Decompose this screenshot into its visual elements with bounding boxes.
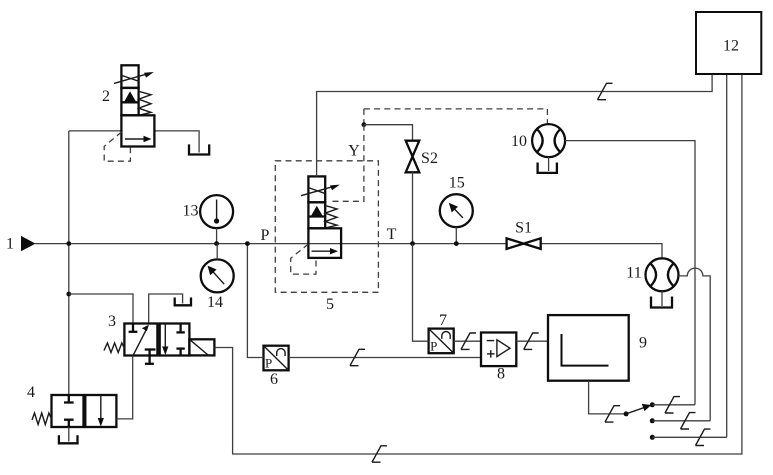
svg-text:5: 5 <box>326 296 334 313</box>
valve 3 right position box <box>160 324 190 356</box>
tank under valve 2 outlet <box>189 144 209 154</box>
wire meter 10 signal to switch row 1 <box>565 141 695 405</box>
signal slash on Y wire <box>598 83 613 99</box>
wire solenoid to controller 12 <box>214 74 742 454</box>
valve 5 pilot dashed line <box>291 244 316 274</box>
svg-text:15: 15 <box>449 175 465 192</box>
svg-text:6: 6 <box>270 371 278 388</box>
valve 2 pilot cone box <box>121 88 138 115</box>
flow meter 10 <box>532 124 565 157</box>
signal slash row 1 <box>665 397 680 413</box>
controller box 12 <box>696 12 761 74</box>
dashed pilot line to flow meter 10 <box>364 109 548 125</box>
gauge 15 <box>440 194 473 227</box>
junction transducer 6 tap <box>245 241 250 246</box>
valve 3 left position box <box>124 324 157 364</box>
svg-text:P: P <box>430 338 437 353</box>
svg-text:P: P <box>265 356 272 371</box>
pressure transducer 7 <box>429 329 454 354</box>
signal slash on 9 output <box>605 406 620 422</box>
svg-text:13: 13 <box>183 203 199 220</box>
svg-text:14: 14 <box>207 294 223 311</box>
valve 4 spring <box>32 413 52 425</box>
junction left/valve3 branch <box>66 292 71 297</box>
valve 5 spring <box>325 206 337 229</box>
svg-text:1: 1 <box>6 236 14 253</box>
junction pilot node <box>362 122 367 127</box>
signal slash on 8 wire <box>524 333 539 349</box>
tank near valve 3 <box>175 298 191 306</box>
svg-text:S2: S2 <box>421 150 438 167</box>
amplifier 8 <box>481 333 516 367</box>
svg-text:9: 9 <box>639 335 647 352</box>
wire main pressure line P <box>35 244 662 259</box>
valve 2 pilot dashed line <box>104 132 130 161</box>
dashed enclosure of valve 5 <box>275 161 378 292</box>
wire meter 11 drain <box>661 291 663 306</box>
valve 5 pilot cone box <box>308 202 325 228</box>
wire gauge 15 stem <box>455 227 457 243</box>
signal slash on 7 wire <box>461 333 476 349</box>
wire meter 11 signal with crossover hop to switch row 2 <box>679 268 711 421</box>
signal slash row 2 <box>681 413 696 429</box>
wire transducer 6 signal to amplifier 8 <box>289 357 481 359</box>
gauge 13 <box>200 195 233 228</box>
valve 2 main box <box>121 115 154 146</box>
valve 5 main box <box>308 228 341 258</box>
recorder 9 <box>548 315 629 381</box>
svg-text:3: 3 <box>108 313 116 330</box>
junction gauge 13 <box>214 241 219 246</box>
wire left vertical branch <box>68 131 70 395</box>
svg-text:11: 11 <box>626 265 641 282</box>
svg-text:12: 12 <box>723 38 739 55</box>
wire meter 10 drain <box>548 157 550 171</box>
wire transducer 7 signal to amplifier 8 <box>454 340 481 342</box>
wire gauge 14 stem <box>216 244 218 260</box>
wire valve 4 out to valve 3 <box>116 356 132 419</box>
svg-text:S1: S1 <box>515 220 532 237</box>
junction S2/main <box>410 241 415 246</box>
valve S1 <box>507 238 541 249</box>
wire valve 4 drain stem <box>68 427 70 442</box>
valve 2 top throttle box <box>114 65 154 88</box>
source arrow 1 <box>21 236 36 251</box>
svg-text:8: 8 <box>497 366 505 383</box>
wire S2 to main line <box>412 172 414 243</box>
svg-text:2: 2 <box>102 88 110 105</box>
wire valve 5 vent Y to controller 12 <box>317 74 712 176</box>
signal slash on solenoid wire <box>372 446 387 462</box>
tank under meter 10 <box>538 163 557 173</box>
wire tap to transducer 7 <box>413 244 429 342</box>
wire valve 2 outlet to tank <box>154 131 199 153</box>
pressure transducer 6 <box>264 346 289 371</box>
junction main/left <box>66 241 71 246</box>
signal slash row 3 <box>696 429 711 445</box>
valve 5 top throttle box <box>301 176 340 202</box>
selector switch <box>624 402 655 440</box>
valve 2 spring <box>139 91 151 115</box>
svg-text:Y: Y <box>348 143 360 160</box>
wire branch to valve 3 port A <box>69 294 133 324</box>
svg-text:7: 7 <box>439 312 447 329</box>
wire feed to valve 2 <box>69 130 122 132</box>
valve 4 left position box <box>52 395 84 427</box>
tank under valve 4 <box>59 435 78 443</box>
svg-text:10: 10 <box>511 133 527 150</box>
wire amplifier 8 to recorder 9 <box>516 340 548 342</box>
gauge 14 <box>201 259 234 292</box>
signal slash on 6 wire <box>350 349 365 365</box>
wire to valve S2 <box>364 125 413 141</box>
svg-text:T: T <box>387 226 397 243</box>
wire gauge 13 stem <box>216 228 218 243</box>
svg-text:P: P <box>261 227 270 244</box>
dashed pilot to valve 5 spring chamber <box>329 125 364 202</box>
valve S2 <box>406 141 420 173</box>
tank under meter 11 <box>651 297 672 308</box>
wire tap to transducer 6 <box>247 244 263 358</box>
svg-text:4: 4 <box>27 384 35 401</box>
wire switch row 2 <box>652 420 710 422</box>
valve 4 right position box <box>85 395 116 427</box>
valve 3 solenoid <box>189 339 214 355</box>
flow meter 11 <box>646 258 679 291</box>
junction gauge 15 <box>454 241 459 246</box>
wire recorder 9 output <box>589 381 627 414</box>
wire valve 3 port B to tank <box>149 294 183 324</box>
wire switch row 1 <box>652 404 695 406</box>
valve 3 spring <box>104 343 124 353</box>
wire switch row 3 to controller 12 <box>652 74 726 437</box>
